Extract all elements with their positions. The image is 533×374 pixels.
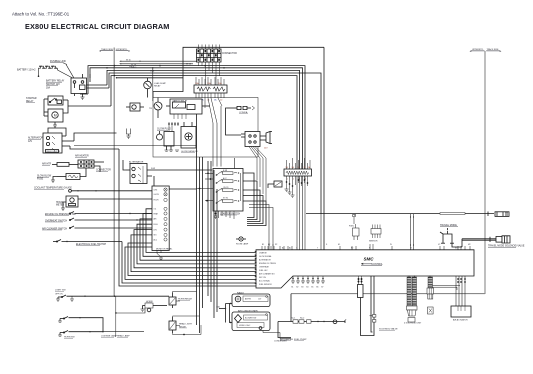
svg-text:M: M bbox=[54, 114, 57, 118]
wire bus B2 bbox=[90, 68, 303, 169]
svg-text:B BR: B BR bbox=[223, 170, 228, 172]
label alternator upper bbox=[129, 161, 144, 164]
vertical bundle center v4 bbox=[207, 161, 209, 296]
relay head light bbox=[169, 316, 200, 333]
svg-text:30A: 30A bbox=[46, 87, 51, 90]
svg-text:AM FM: AM FM bbox=[245, 298, 251, 301]
transistor load dump bbox=[149, 98, 162, 119]
wire staircase s2 bbox=[143, 214, 260, 257]
svg-text:SENSOR: SENSOR bbox=[369, 241, 378, 243]
divider label left-a bbox=[99, 48, 114, 52]
connector inline pair bbox=[226, 106, 255, 135]
wire bus B4 bbox=[109, 73, 321, 214]
label starter relay bbox=[26, 97, 37, 103]
fuse box FB1 bbox=[194, 77, 227, 98]
ground engine earth bbox=[127, 129, 131, 139]
svg-text:BLOWER SW: BLOWER SW bbox=[245, 317, 256, 319]
wire staircase s6 bbox=[131, 235, 260, 272]
switch horn button bbox=[58, 331, 103, 337]
wire fuse row drops bbox=[286, 176, 308, 195]
label connector inline bbox=[239, 111, 248, 114]
svg-text:ROOM LAMP: ROOM LAMP bbox=[236, 243, 249, 246]
switch air cleaner bbox=[69, 226, 152, 229]
svg-text:OFF ON: OFF ON bbox=[55, 294, 63, 296]
relay travel mode pressure switch bbox=[440, 228, 454, 243]
svg-text:R2: R2 bbox=[275, 244, 277, 246]
breaker small box bbox=[126, 103, 144, 111]
connector loop inline bbox=[370, 315, 376, 323]
divider line upperstructure/track side bbox=[291, 51, 485, 294]
divider line left boundary bbox=[113, 48, 115, 297]
connector travel mode harness bbox=[495, 212, 509, 217]
label coolant temperature gauge bbox=[34, 187, 72, 190]
wire harness tag a bbox=[119, 61, 196, 62]
svg-text:TR: TR bbox=[149, 108, 152, 110]
node smc input arrows bbox=[255, 251, 257, 284]
label horn switch bbox=[64, 337, 76, 339]
label electrical fuel switch bbox=[76, 243, 107, 246]
svg-text:V2: V2 bbox=[438, 244, 440, 246]
svg-text:AIR ACTUATOR: AIR ACTUATOR bbox=[453, 319, 468, 322]
fuse small box above loop bbox=[358, 276, 364, 298]
svg-text:ST R2: ST R2 bbox=[223, 198, 228, 200]
wire fuel gauge fan bbox=[249, 147, 266, 202]
svg-text:FUEL: FUEL bbox=[349, 226, 355, 228]
wire staircase s1 bbox=[146, 209, 260, 253]
svg-text:G3: G3 bbox=[301, 287, 303, 289]
horn unit bbox=[141, 303, 168, 312]
wire fuel pump chain bbox=[278, 320, 345, 338]
svg-text:W: W bbox=[390, 244, 392, 246]
wire smc top links left bbox=[249, 205, 274, 250]
cable hatched single bbox=[428, 276, 433, 289]
svg-text:E1: E1 bbox=[338, 244, 340, 246]
label hour meter bbox=[56, 202, 64, 207]
controller SMC box bbox=[256, 250, 474, 288]
svg-text:SMC: SMC bbox=[364, 257, 375, 262]
wire solenoid U loop bbox=[361, 276, 375, 336]
label SMC bbox=[361, 257, 383, 267]
fuel sender right bbox=[369, 225, 381, 243]
svg-text:OVERHEAT: OVERHEAT bbox=[259, 266, 270, 269]
ground slow fuse bbox=[51, 180, 55, 182]
wire nested riser n3 bbox=[243, 190, 260, 222]
svg-text:ENGINE OIL PRESS: ENGINE OIL PRESS bbox=[259, 263, 277, 265]
svg-text:12V: 12V bbox=[28, 141, 33, 143]
svg-text:ALTERNATOR: ALTERNATOR bbox=[259, 259, 271, 262]
wire bus B5 bbox=[111, 76, 297, 169]
wire safety relay riser bbox=[114, 67, 154, 101]
wire actuator lines bbox=[456, 276, 466, 306]
svg-text:HEAD LIGHT: HEAD LIGHT bbox=[179, 323, 193, 326]
svg-text:Attach to Vol. No. :TT196E-01: Attach to Vol. No. :TT196E-01 bbox=[12, 12, 70, 17]
wire fuse drops diagonal bbox=[205, 98, 222, 123]
label fuse 4-6a bbox=[216, 306, 220, 309]
relay small above smc bbox=[268, 181, 282, 188]
svg-text:G2: G2 bbox=[296, 287, 298, 289]
fuse slow blow bbox=[53, 168, 86, 180]
label travel mode solenoid valve bbox=[488, 245, 525, 248]
svg-text:B2: B2 bbox=[268, 244, 270, 246]
horn component bbox=[260, 132, 272, 144]
ground fuse row g1 bbox=[285, 189, 295, 197]
label air cleaner switch bbox=[42, 227, 67, 230]
block air conditioner bbox=[232, 312, 270, 331]
wire staircase s9 bbox=[122, 242, 260, 284]
svg-text:1: 1 bbox=[287, 179, 288, 181]
wire bottom left run bbox=[102, 331, 144, 332]
battery B1 bbox=[38, 66, 74, 78]
label air heater right bbox=[75, 155, 89, 158]
wire spine x116 bbox=[117, 77, 184, 79]
label slow blow fuse bbox=[37, 176, 52, 181]
svg-text:G4: G4 bbox=[306, 287, 308, 289]
label ac exit bbox=[274, 341, 287, 343]
divider label right bbox=[486, 48, 501, 52]
divider line left boundary lower bbox=[115, 296, 117, 337]
svg-text:M1: M1 bbox=[455, 248, 458, 250]
label wiper label small bbox=[55, 294, 63, 296]
svg-text:G1: G1 bbox=[291, 287, 293, 289]
wire key switch feed monitor bbox=[169, 188, 196, 190]
wire bus B1 bbox=[88, 66, 305, 169]
svg-text:HORN: HORN bbox=[146, 301, 153, 303]
vertical bundle center v5 bbox=[210, 161, 212, 302]
label wire codes top bbox=[131, 64, 192, 73]
svg-text:ON R1: ON R1 bbox=[223, 187, 229, 189]
label license lamp bbox=[101, 335, 117, 338]
wire bus outer loop bbox=[153, 47, 324, 97]
key switch block bbox=[213, 158, 243, 211]
label smc top pin names bbox=[262, 244, 471, 250]
wire staircase s5 bbox=[134, 230, 260, 268]
svg-text:CHARGE: CHARGE bbox=[259, 252, 267, 255]
svg-text:OIL: OIL bbox=[154, 209, 157, 211]
wire smc bottom stubs with grounds bbox=[292, 276, 323, 281]
svg-text:HI ME LO A/C: HI ME LO A/C bbox=[239, 324, 251, 327]
connector travel mode solenoid valve bbox=[496, 236, 510, 243]
connector CN2 bbox=[78, 160, 104, 172]
wire bus vertical x324 bbox=[323, 47, 325, 250]
label wiper switch bbox=[55, 290, 66, 292]
svg-text:2: 2 bbox=[293, 179, 294, 181]
connector cable single bottom bbox=[427, 288, 434, 314]
label pump small bbox=[291, 318, 347, 322]
svg-text:A2: A2 bbox=[289, 247, 291, 250]
svg-text:STARTER: STARTER bbox=[26, 97, 37, 100]
svg-text:FUSE: FUSE bbox=[37, 178, 44, 180]
svg-text:M2: M2 bbox=[468, 244, 471, 246]
label alternator lower bbox=[28, 137, 43, 143]
wire travel solenoid line bbox=[452, 237, 496, 247]
vertical bundle center v3 bbox=[202, 157, 204, 308]
svg-text:HEAT: HEAT bbox=[154, 212, 158, 215]
label spare bbox=[117, 335, 130, 338]
svg-text:AIR CLEANER SIG: AIR CLEANER SIG bbox=[259, 273, 275, 276]
svg-text:AIR CONDITIONER: AIR CONDITIONER bbox=[238, 309, 258, 312]
wire smc top links solenoid bbox=[410, 214, 414, 250]
monitor panel block bbox=[152, 186, 173, 251]
connector cable pair bottom bbox=[407, 306, 418, 322]
vertical bundle center v6 bbox=[213, 170, 215, 318]
fuel sender left bbox=[349, 224, 359, 240]
label fusible link bbox=[50, 60, 66, 63]
svg-text:CONNECTOR: CONNECTOR bbox=[222, 53, 237, 55]
node junction dots top bbox=[106, 65, 225, 69]
svg-text:RELAY: RELAY bbox=[154, 85, 161, 88]
enclosure engine box bbox=[153, 98, 258, 158]
wire key bottom stubs bbox=[222, 211, 234, 219]
wire relay bottom run bbox=[173, 325, 202, 335]
svg-text:V1: V1 bbox=[410, 248, 412, 250]
svg-text:FUEL SENSOR: FUEL SENSOR bbox=[259, 284, 272, 286]
switch monitor bottom bbox=[157, 251, 163, 261]
svg-text:R-W: R-W bbox=[151, 168, 155, 170]
cable hatched pair left bbox=[407, 276, 417, 307]
switch overheat bbox=[69, 218, 152, 221]
relay horn bbox=[169, 292, 197, 309]
starter motor M bbox=[44, 100, 68, 125]
wire travel mode line bbox=[306, 212, 494, 217]
label battery relay switch bbox=[46, 80, 65, 90]
label radio bbox=[237, 291, 244, 294]
wire nested riser n2 bbox=[243, 181, 257, 220]
ground smc bottom row bbox=[291, 281, 325, 283]
svg-text:BATTERY 12V×2: BATTERY 12V×2 bbox=[17, 69, 36, 72]
wire radio ac feed bbox=[219, 303, 232, 323]
wire key switch left feeds bbox=[197, 173, 214, 202]
label air heater bottom bbox=[280, 338, 293, 341]
ground battery relay bbox=[81, 97, 85, 99]
wire staircase s10 bbox=[119, 149, 260, 286]
wire ac exit bbox=[263, 331, 291, 339]
label cable pair bbox=[404, 323, 422, 325]
fuse row connector CN3 bbox=[284, 158, 312, 176]
wire nested riser n1 bbox=[243, 173, 254, 218]
label travel mode bbox=[440, 224, 458, 227]
ground glow bank bbox=[165, 150, 180, 151]
label connector bbox=[96, 170, 111, 172]
label air conditioner bbox=[238, 309, 258, 312]
svg-text:FUEL LEV: FUEL LEV bbox=[259, 270, 268, 272]
vertical bundle center v1 bbox=[196, 114, 198, 325]
wire bus B3 bbox=[107, 70, 300, 169]
block fuel gauge unit bbox=[241, 132, 260, 147]
svg-text:GLOW: GLOW bbox=[154, 194, 160, 196]
vertical bundle center v7 bbox=[216, 189, 218, 312]
svg-text:GLOW SIGNAL: GLOW SIGNAL bbox=[259, 255, 272, 258]
label harness tags bbox=[126, 60, 135, 68]
wire harness tag b bbox=[119, 63, 193, 64]
label engine unit bbox=[181, 151, 198, 153]
actuator box bbox=[451, 306, 471, 317]
svg-text:10: 10 bbox=[298, 167, 300, 169]
label fuse ratings bbox=[195, 82, 223, 102]
label horn bbox=[146, 301, 153, 303]
label smc bottom pins bbox=[291, 287, 323, 289]
label solenoid loop bbox=[379, 328, 398, 331]
wire smc feed verticals bbox=[297, 176, 321, 250]
svg-text:LOAD DUMP: LOAD DUMP bbox=[154, 82, 167, 85]
resistor air heater bbox=[52, 163, 78, 167]
label r-w wire bbox=[151, 168, 155, 170]
transistor load dump upper bbox=[144, 78, 167, 98]
label head light relay bbox=[179, 323, 193, 329]
label air heater bbox=[42, 163, 52, 166]
label glow plug bbox=[157, 129, 171, 131]
ground light sw bbox=[56, 296, 74, 301]
svg-text:KEY ON: KEY ON bbox=[259, 277, 266, 279]
lamp indicator small bbox=[236, 237, 249, 246]
wire cable link small bbox=[433, 286, 461, 291]
alternator upper unit bbox=[123, 160, 212, 186]
svg-text:15: 15 bbox=[304, 167, 306, 169]
label 24v bbox=[264, 148, 268, 150]
svg-text:G6: G6 bbox=[316, 287, 318, 289]
svg-text:REGULATOR: REGULATOR bbox=[47, 150, 61, 153]
ground starter bbox=[53, 125, 57, 127]
connector block CN top bbox=[197, 45, 222, 86]
svg-text:4 SOLENOID UNIT: 4 SOLENOID UNIT bbox=[404, 323, 422, 325]
svg-text:HOUR: HOUR bbox=[154, 200, 160, 202]
label fuse row ratings bbox=[286, 166, 311, 181]
hour meter HM bbox=[63, 196, 152, 208]
label horn relay bbox=[178, 298, 193, 301]
label engine oil pressure switch bbox=[45, 214, 77, 216]
svg-text:B1: B1 bbox=[262, 244, 264, 246]
wire key switch bottom drops bbox=[214, 211, 219, 218]
svg-text:FUEL: FUEL bbox=[154, 224, 158, 226]
switch electrical fuel bbox=[53, 240, 122, 243]
wire staircase s7 bbox=[128, 243, 260, 276]
wire nested riser n5 bbox=[243, 201, 266, 226]
label actuator bbox=[453, 319, 468, 322]
wire frame return line bbox=[290, 294, 292, 322]
svg-text:W-B: W-B bbox=[150, 71, 155, 73]
wire staircase s3 bbox=[140, 219, 260, 260]
wire staircase s4 bbox=[137, 224, 260, 264]
relay safety unit bbox=[166, 99, 210, 119]
wire horn feed bbox=[115, 308, 145, 314]
wire staircase s8 bbox=[125, 247, 260, 279]
label overheat switch bbox=[45, 219, 67, 222]
svg-text:TRACK SIDE: TRACK SIDE bbox=[101, 48, 114, 51]
divider label left-b bbox=[116, 49, 131, 52]
glow plug bank bbox=[157, 122, 179, 150]
fusible link FL bbox=[63, 63, 74, 78]
sensor coolant temp bbox=[69, 189, 152, 192]
label SMC input rows bbox=[259, 252, 277, 287]
resistor fuel sender top bbox=[353, 215, 356, 225]
svg-text:G5: G5 bbox=[311, 287, 313, 289]
starter relay K2 bbox=[44, 96, 68, 108]
wire smc top stubs bbox=[262, 244, 470, 250]
battery relay K1 bbox=[71, 74, 109, 97]
divider label left bbox=[470, 49, 485, 52]
vertical bundle center v2 bbox=[199, 157, 201, 333]
ground hour meter bbox=[61, 208, 65, 210]
svg-text:TRAVEL MODE: TRAVEL MODE bbox=[440, 224, 457, 227]
label fuel pump bbox=[294, 339, 307, 341]
svg-text:SAFETY RELAY: SAFETY RELAY bbox=[173, 100, 188, 103]
wire starter to bus bbox=[68, 105, 111, 107]
wire heater feed bbox=[74, 145, 197, 147]
wire nested riser n4 bbox=[243, 196, 263, 224]
alternator A1 bbox=[43, 128, 119, 153]
switch washer bbox=[58, 317, 103, 332]
svg-text:EX80U ELECTRICAL CIRCUIT DIAGR: EX80U ELECTRICAL CIRCUIT DIAGRAM bbox=[25, 22, 170, 31]
svg-text:TRACK SIDE: TRACK SIDE bbox=[487, 48, 500, 51]
label battery bbox=[17, 69, 36, 72]
switch light bbox=[58, 295, 169, 299]
svg-text:G7: G7 bbox=[321, 287, 323, 289]
wire fuse verticals down bbox=[213, 106, 221, 167]
meter glow indicator bbox=[181, 122, 196, 148]
switch oil pressure bbox=[69, 212, 152, 215]
label starter switch bbox=[220, 212, 241, 215]
block radio bbox=[232, 294, 270, 307]
svg-text:ACC SIGNAL: ACC SIGNAL bbox=[259, 280, 270, 283]
